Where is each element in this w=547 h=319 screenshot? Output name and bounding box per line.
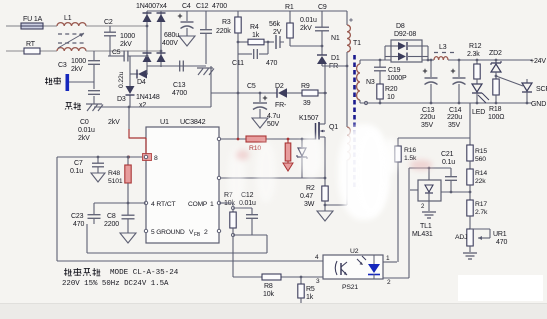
svg-text:2kV: 2kV <box>300 25 312 32</box>
svg-text:1k: 1k <box>252 32 260 39</box>
svg-text:SCR: SCR <box>536 86 547 93</box>
svg-text:2kV: 2kV <box>78 135 90 142</box>
svg-text:C7: C7 <box>74 160 83 167</box>
svg-text:35V: 35V <box>448 122 460 129</box>
svg-text:1k: 1k <box>306 294 314 301</box>
svg-text:C13: C13 <box>173 82 186 89</box>
svg-text:1N4007x4: 1N4007x4 <box>136 3 167 10</box>
svg-text:470: 470 <box>496 239 507 246</box>
svg-text:R1: R1 <box>285 4 294 11</box>
svg-text:1000: 1000 <box>120 33 135 40</box>
svg-text:C5: C5 <box>247 83 256 90</box>
svg-text:1: 1 <box>386 255 390 262</box>
svg-text:5 GROUND: 5 GROUND <box>151 229 185 236</box>
svg-text:5101: 5101 <box>108 178 123 185</box>
svg-text:D8: D8 <box>396 23 405 30</box>
svg-text:10k: 10k <box>263 291 274 298</box>
svg-text:L1: L1 <box>64 15 72 22</box>
svg-text:220u: 220u <box>447 114 462 121</box>
svg-text:220k: 220k <box>216 28 231 35</box>
svg-text:10: 10 <box>387 94 395 101</box>
svg-text:C3: C3 <box>58 62 67 69</box>
svg-text:1000P: 1000P <box>387 75 407 82</box>
svg-text:220V 15% 50Hz DC24V 1.5A: 220V 15% 50Hz DC24V 1.5A <box>62 280 169 288</box>
svg-text:D4: D4 <box>137 79 146 86</box>
svg-text:D2: D2 <box>275 83 284 90</box>
svg-text:PS21: PS21 <box>342 284 358 291</box>
svg-text:R9: R9 <box>301 83 310 90</box>
svg-text:C5: C5 <box>112 49 121 56</box>
svg-text:R3: R3 <box>222 19 231 26</box>
svg-text:C21: C21 <box>441 151 454 158</box>
svg-text:2.3k: 2.3k <box>467 51 480 58</box>
svg-text:RT: RT <box>26 41 36 48</box>
svg-text:4: 4 <box>315 254 319 261</box>
svg-text:UC3842: UC3842 <box>180 117 206 126</box>
svg-text:470: 470 <box>73 221 84 228</box>
svg-text:R8: R8 <box>264 283 273 290</box>
svg-text:8: 8 <box>154 155 158 162</box>
svg-text:UR1: UR1 <box>493 231 507 238</box>
svg-text:N3: N3 <box>366 79 375 86</box>
svg-text:400V: 400V <box>162 40 178 47</box>
svg-text:U1: U1 <box>160 117 169 126</box>
svg-text:3W: 3W <box>304 201 315 208</box>
svg-text:4 RT/CT: 4 RT/CT <box>151 201 176 208</box>
svg-text:FB: FB <box>194 232 201 238</box>
svg-text:R2: R2 <box>306 185 315 192</box>
svg-text:LED: LED <box>472 109 485 116</box>
svg-text:C23: C23 <box>71 213 84 220</box>
svg-text:Q1: Q1 <box>329 124 338 131</box>
svg-text:C12: C12 <box>196 3 209 10</box>
svg-text:56k: 56k <box>269 21 280 28</box>
svg-text:2V: 2V <box>273 29 282 36</box>
svg-text:2kV: 2kV <box>120 41 132 48</box>
svg-text:MODE CL-A-35-24: MODE CL-A-35-24 <box>110 269 179 277</box>
svg-text:4700: 4700 <box>172 90 187 97</box>
svg-text:2kV: 2kV <box>71 66 83 73</box>
svg-text:R14: R14 <box>475 170 487 177</box>
svg-text:C4: C4 <box>182 3 191 10</box>
svg-text:D1: D1 <box>331 55 340 62</box>
svg-text:2: 2 <box>387 279 391 286</box>
svg-text:+24V: +24V <box>530 58 546 65</box>
svg-text:3: 3 <box>316 278 320 285</box>
svg-text:560: 560 <box>475 156 486 163</box>
svg-text:0.22u: 0.22u <box>118 71 125 88</box>
svg-text:1000: 1000 <box>71 58 86 65</box>
svg-text:0.01u: 0.01u <box>300 17 317 24</box>
svg-text:4700: 4700 <box>212 3 227 10</box>
svg-text:R5: R5 <box>306 286 315 293</box>
svg-text:39: 39 <box>303 100 311 107</box>
svg-text:COMP: COMP <box>188 201 208 208</box>
svg-text:ADJ: ADJ <box>455 234 467 241</box>
svg-text:K1507: K1507 <box>299 115 319 122</box>
svg-text:FR-: FR- <box>275 102 287 109</box>
svg-text:4.7u: 4.7u <box>267 113 280 120</box>
svg-text:C14: C14 <box>449 107 462 114</box>
svg-text:C2: C2 <box>104 19 113 26</box>
svg-text:35V: 35V <box>421 122 433 129</box>
svg-text:2200: 2200 <box>104 221 119 228</box>
svg-text:2kV: 2kV <box>108 119 120 126</box>
svg-text:50V: 50V <box>267 121 279 128</box>
svg-text:1N4148: 1N4148 <box>136 94 160 101</box>
svg-text:D3: D3 <box>117 96 126 103</box>
svg-text:0.47: 0.47 <box>300 193 313 200</box>
svg-text:N1: N1 <box>331 35 340 42</box>
svg-text:1: 1 <box>210 201 214 208</box>
svg-text:0.01u: 0.01u <box>78 127 95 134</box>
svg-text:R48: R48 <box>108 170 120 177</box>
svg-text:T1: T1 <box>353 40 361 47</box>
svg-text:100Ω: 100Ω <box>488 114 504 121</box>
svg-text:TL1: TL1 <box>420 223 432 230</box>
svg-text:R18: R18 <box>489 106 502 113</box>
svg-text:22k: 22k <box>475 178 486 185</box>
svg-text:D92-08: D92-08 <box>394 31 416 38</box>
svg-text:220u: 220u <box>420 114 435 121</box>
svg-text:L3: L3 <box>439 44 447 51</box>
svg-text:R16: R16 <box>404 147 416 154</box>
svg-text:0.1u: 0.1u <box>70 168 83 175</box>
svg-text:2: 2 <box>204 229 208 236</box>
svg-text:C19: C19 <box>388 67 401 74</box>
svg-text:C8: C8 <box>107 213 116 220</box>
svg-text:R4: R4 <box>250 24 259 31</box>
svg-text:C0: C0 <box>80 119 89 126</box>
svg-text:680u: 680u <box>164 32 179 39</box>
svg-text:ML431: ML431 <box>412 231 433 238</box>
svg-text:U2: U2 <box>350 248 359 255</box>
svg-text:x2: x2 <box>139 102 146 109</box>
svg-text:R17: R17 <box>475 201 487 208</box>
svg-text:ZD2: ZD2 <box>489 50 502 57</box>
svg-text:2: 2 <box>421 204 425 210</box>
svg-text:470: 470 <box>266 60 277 67</box>
svg-text:GND: GND <box>531 101 546 108</box>
svg-text:R15: R15 <box>475 148 487 155</box>
svg-text:R12: R12 <box>469 43 482 50</box>
svg-text:C9: C9 <box>318 4 327 11</box>
svg-text:0.1u: 0.1u <box>442 159 455 166</box>
svg-text:FU 1A: FU 1A <box>23 16 43 23</box>
svg-text:R20: R20 <box>385 86 398 93</box>
svg-text:2.7k: 2.7k <box>475 209 488 216</box>
svg-text:C13: C13 <box>422 107 435 114</box>
